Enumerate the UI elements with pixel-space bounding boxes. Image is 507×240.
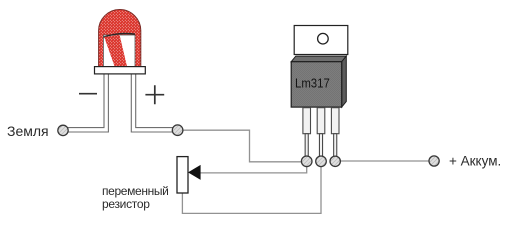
svg-text:Земля: Земля <box>7 123 49 139</box>
svg-text:+ Аккум.: + Аккум. <box>449 154 501 169</box>
svg-text:Lm317: Lm317 <box>295 75 330 90</box>
svg-text:переменный: переменный <box>102 184 169 198</box>
svg-text:резистор: резистор <box>102 197 150 211</box>
